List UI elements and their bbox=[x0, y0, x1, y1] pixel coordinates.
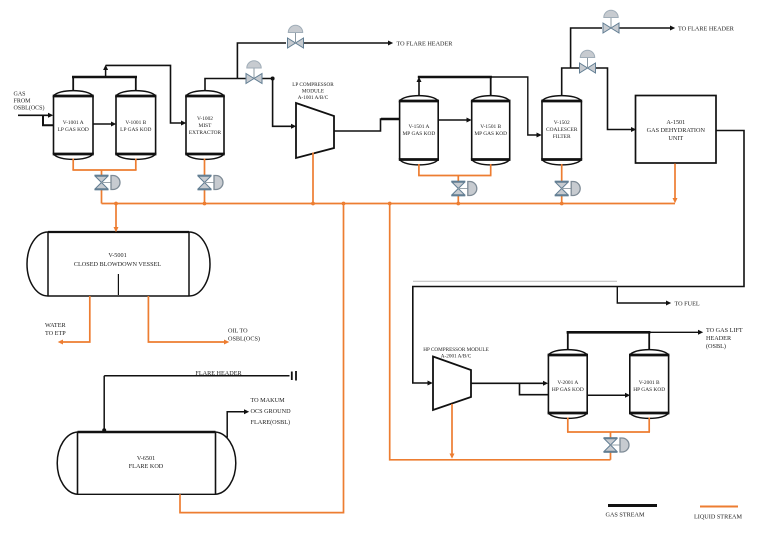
svg-text:V-1001 A: V-1001 A bbox=[63, 120, 84, 126]
node GAS FROM OSBL(OCS) label bbox=[14, 92, 45, 112]
svg-text:V-1502: V-1502 bbox=[554, 120, 570, 126]
vessel V-1501 B MP GAS KOD bbox=[471, 96, 511, 165]
wire TO FUEL branch bbox=[617, 287, 671, 306]
wire V-1002 top riser bbox=[205, 79, 237, 92]
wire LP overhead riser with up arrow bbox=[103, 65, 108, 77]
wire MP bottoms drop through valve bbox=[457, 176, 459, 204]
svg-text:HP GAS KOD: HP GAS KOD bbox=[552, 387, 584, 393]
weir line inside V-5001 bbox=[117, 274, 119, 295]
svg-text:OSBL(OCS): OSBL(OCS) bbox=[228, 336, 260, 343]
node TO MAKUM OCS GROUND FLARE label bbox=[251, 397, 292, 426]
valve LV vertical V-1502 drain bbox=[555, 181, 581, 196]
wire V-1001B top riser bbox=[135, 77, 137, 91]
vessel V-1001 B LP GAS KOD bbox=[115, 91, 156, 160]
wire V-5001 water outlet bbox=[58, 296, 90, 345]
node TO GAS LIFT HEADER label bbox=[706, 327, 743, 350]
svg-text:HP COMPRESSOR MODULE: HP COMPRESSOR MODULE bbox=[423, 347, 489, 353]
wire LP bottoms drop through valve bbox=[101, 170, 103, 204]
wire flare tap riser 1 bbox=[237, 43, 286, 79]
svg-text:V-1002: V-1002 bbox=[197, 116, 213, 122]
node legend GAS STREAM bbox=[606, 506, 658, 519]
wire V-5001 oil outlet bbox=[148, 296, 229, 345]
wire V-1002 overhead through valve to junction bbox=[237, 78, 272, 80]
wire V-1001A drain bbox=[72, 159, 74, 171]
svg-text:(OSBL): (OSBL) bbox=[706, 343, 726, 350]
svg-text:GAS DEHYDRATION: GAS DEHYDRATION bbox=[647, 127, 706, 134]
vessel V-1002 MIST EXTRACTOR bbox=[185, 91, 225, 160]
svg-text:FROM: FROM bbox=[14, 99, 32, 105]
wire flare line 2 to arrow bbox=[620, 26, 676, 31]
wire V-1001A top riser bbox=[72, 77, 74, 91]
svg-text:FLARE KOD: FLARE KOD bbox=[129, 463, 164, 470]
valve LV vertical MP bottoms bbox=[451, 181, 477, 196]
vessel V-2001 A HP GAS KOD bbox=[548, 350, 588, 419]
valve LV vertical V-1002 drain bbox=[198, 175, 224, 190]
wire V-1502 overhead through valve to A-1501 bbox=[596, 68, 636, 132]
svg-text:V-1501 B: V-1501 B bbox=[480, 124, 501, 130]
svg-text:OCS GROUND: OCS GROUND bbox=[251, 408, 292, 415]
wire TO GAS LIFT header line bbox=[649, 330, 703, 335]
valve PV horizontal on V-1002 overhead bbox=[246, 61, 262, 84]
wire V-1001B drain bbox=[135, 159, 137, 171]
svg-text:A-1001 A/B/C: A-1001 A/B/C bbox=[298, 95, 329, 101]
wire flare header to V-6501 bbox=[103, 376, 105, 430]
wire LP overhead to V-1002 bbox=[106, 65, 187, 125]
node OIL TO OSBL(OCS) label bbox=[228, 328, 260, 343]
svg-text:LIQUID STREAM: LIQUID STREAM bbox=[694, 514, 742, 521]
valve PV horizontal on V-1502 overhead bbox=[580, 50, 596, 73]
svg-text:UNIT: UNIT bbox=[668, 135, 683, 142]
wire V-1501A top riser with up arrow bbox=[417, 77, 422, 96]
wire LP compressor outlet to V-1501A bbox=[334, 119, 399, 131]
svg-text:MIST: MIST bbox=[199, 123, 213, 129]
compressor HP COMPRESSOR MODULE A-2001 A/B/C bbox=[423, 347, 489, 410]
wire V-2001B drain bbox=[648, 418, 650, 433]
svg-text:TO ETP: TO ETP bbox=[45, 330, 66, 337]
wire V-1002 drain through valve bbox=[204, 159, 206, 204]
vessel V-5001 CLOSED BLOWDOWN VESSEL (horizontal) bbox=[27, 232, 210, 296]
wire V-1001A to V-1001B bbox=[93, 122, 116, 127]
wire main liquid manifold bbox=[102, 203, 676, 205]
svg-text:V-1001 B: V-1001 B bbox=[125, 120, 146, 126]
svg-text:TO FLARE HEADER: TO FLARE HEADER bbox=[397, 41, 454, 48]
wire MP overhead to V-1502 bbox=[491, 77, 542, 138]
node junction mist extractor drain bbox=[203, 202, 207, 206]
svg-text:A-1501: A-1501 bbox=[666, 119, 685, 126]
svg-text:GAS STREAM: GAS STREAM bbox=[606, 512, 646, 519]
svg-text:V-2001 B: V-2001 B bbox=[639, 380, 660, 386]
wire V-1501A to V-1501B bbox=[438, 118, 472, 123]
valve LV vertical LP bottoms bbox=[95, 175, 121, 190]
compressor LP COMPRESSOR MODULE A-1001 A/B/C bbox=[292, 82, 334, 158]
wire V-5001 feed with down arrow bbox=[114, 204, 119, 233]
wire V-2001A drain bbox=[567, 418, 569, 433]
wire HP bottoms drop through valve bbox=[610, 432, 612, 460]
svg-text:WATER: WATER bbox=[45, 322, 66, 329]
node junction drop to flare KOD line bbox=[342, 202, 346, 206]
svg-text:LP GAS KOD: LP GAS KOD bbox=[120, 127, 151, 133]
node junction LP compressor drain bbox=[311, 202, 315, 206]
node junction dot on V-6501 top bbox=[102, 428, 106, 432]
svg-text:MODULE: MODULE bbox=[302, 89, 324, 95]
svg-text:V-1501 A: V-1501 A bbox=[408, 124, 429, 130]
svg-text:V-6501: V-6501 bbox=[137, 455, 155, 462]
vessel V-1502 COALESCER FILTER bbox=[541, 96, 582, 165]
unit A-1501 GAS DEHYDRATION UNIT bbox=[636, 96, 717, 164]
vessel V-6501 FLARE KOD (horizontal) bbox=[57, 432, 236, 494]
wire down to LP compressor inlet bbox=[273, 79, 297, 129]
wire LP compressor drain bbox=[312, 153, 314, 204]
svg-text:GAS: GAS bbox=[14, 92, 26, 98]
svg-text:MP GAS KOD: MP GAS KOD bbox=[474, 131, 507, 137]
wire long drop to V-6501 drain line bbox=[180, 204, 344, 513]
svg-text:TO FLARE HEADER: TO FLARE HEADER bbox=[678, 26, 735, 33]
wire V-2001A to V-2001B bbox=[587, 393, 630, 398]
svg-text:TO FUEL: TO FUEL bbox=[675, 301, 700, 308]
wire A-1501 drain with down arrow bbox=[673, 164, 678, 204]
wire inlet seal jog into V-1001A bbox=[43, 115, 54, 125]
node junction drop to HP liquid line bbox=[388, 202, 392, 206]
node junction V-1502 drain bbox=[560, 202, 564, 206]
svg-text:A-2001 A/B/C: A-2001 A/B/C bbox=[441, 354, 472, 360]
node junction V-5001 feed bbox=[114, 202, 118, 206]
vessel V-1501 A MP GAS KOD bbox=[399, 96, 439, 165]
valve LV vertical HP bottoms bbox=[604, 438, 630, 453]
svg-text:OSBL(OCS): OSBL(OCS) bbox=[14, 105, 45, 112]
svg-text:HEADER: HEADER bbox=[706, 335, 732, 342]
valve PV horizontal on flare line 1 bbox=[288, 25, 304, 48]
wire V-1501A drain bbox=[418, 164, 420, 176]
svg-text:OIL TO: OIL TO bbox=[228, 328, 248, 335]
wire V-1501A nozzle segment bbox=[381, 118, 400, 120]
wire HP liquid header drop bbox=[390, 204, 611, 460]
svg-text:FLARE(OSBL): FLARE(OSBL) bbox=[251, 419, 291, 426]
vessel V-2001 B HP GAS KOD bbox=[629, 350, 669, 419]
wire MP overhead header bbox=[418, 76, 492, 79]
wire HP bottoms manifold bbox=[567, 431, 650, 433]
wire flare line 1 to arrow bbox=[304, 41, 393, 46]
wire flare tap riser 2 bbox=[571, 28, 602, 68]
svg-text:TO MAKUM: TO MAKUM bbox=[251, 397, 286, 404]
wire V-1502 top riser bbox=[562, 68, 579, 96]
svg-text:CLOSED BLOWDOWN VESSEL: CLOSED BLOWDOWN VESSEL bbox=[74, 261, 161, 268]
vessel V-1001 A LP GAS KOD bbox=[53, 91, 94, 160]
svg-text:EXTRACTOR: EXTRACTOR bbox=[189, 130, 222, 136]
valve PV horizontal on flare line 2 bbox=[603, 10, 619, 33]
svg-text:LP GAS KOD: LP GAS KOD bbox=[58, 127, 89, 133]
node WATER TO ETP label bbox=[45, 322, 66, 337]
svg-text:FLARE HEADER: FLARE HEADER bbox=[195, 370, 242, 377]
wire LP overhead header bbox=[72, 76, 137, 79]
wire V-1502 drain through valve bbox=[561, 164, 563, 204]
svg-text:V-2001 A: V-2001 A bbox=[557, 380, 578, 386]
wire faint duplicate line bbox=[413, 280, 617, 282]
svg-text:MP GAS KOD: MP GAS KOD bbox=[403, 131, 436, 137]
wire MP bottoms manifold bbox=[418, 175, 491, 177]
wire A-1501 outlet loop to HP compressor bbox=[413, 131, 744, 386]
svg-text:FILTER: FILTER bbox=[553, 134, 571, 140]
node legend LIQUID STREAM bbox=[694, 507, 742, 521]
node junction at LP compressor feed bbox=[271, 77, 275, 81]
svg-text:TO GAS LIFT: TO GAS LIFT bbox=[706, 327, 743, 334]
svg-text:LP COMPRESSOR: LP COMPRESSOR bbox=[292, 82, 334, 88]
svg-text:COALESCER: COALESCER bbox=[546, 127, 578, 133]
wire feed gas inlet to V-1001A bbox=[18, 113, 53, 118]
wire HP overhead header bbox=[567, 331, 651, 334]
wire TO MAKUM branch from V-6501 bbox=[227, 409, 249, 437]
wire HP compressor drain with down arrow bbox=[450, 404, 455, 459]
svg-text:HP GAS KOD: HP GAS KOD bbox=[633, 387, 665, 393]
wire V-2001A top riser bbox=[567, 332, 569, 350]
svg-text:V-5001: V-5001 bbox=[108, 252, 126, 259]
wire HP compressor outlet to V-2001A bbox=[471, 381, 548, 386]
wire V-1501B top riser bbox=[490, 77, 492, 96]
node flare header end bars bbox=[292, 371, 296, 381]
node junction MP bottoms bbox=[456, 202, 460, 206]
wire LP bottoms manifold bbox=[72, 169, 136, 171]
wire FLARE HEADER line bbox=[104, 375, 289, 377]
wire V-1501B drain bbox=[490, 164, 492, 176]
wire V-2001A seal jog inlet bbox=[520, 383, 549, 394]
wire V-2001B top riser bbox=[648, 332, 650, 350]
